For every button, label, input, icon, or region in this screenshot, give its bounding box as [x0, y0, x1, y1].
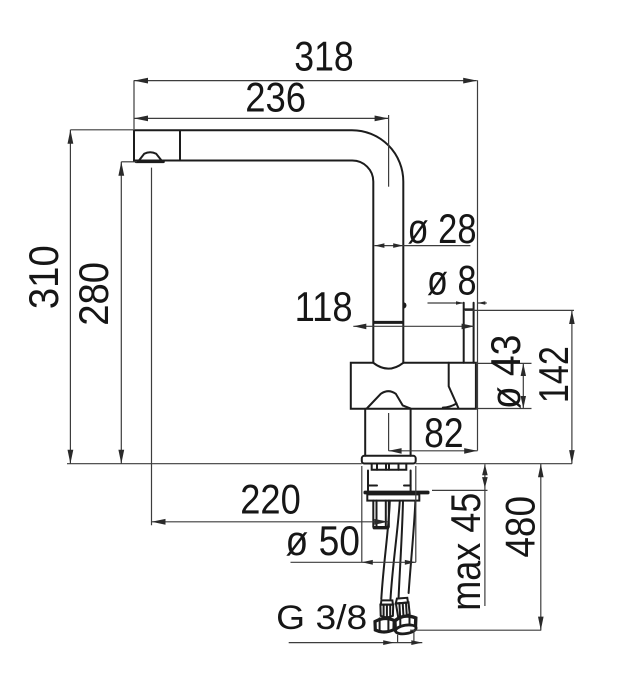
aerator base thick line: [136, 161, 164, 164]
svg-text:G 3/8: G 3/8: [276, 599, 367, 637]
dim 142: [465, 309, 574, 311]
base column: [365, 409, 410, 456]
svg-text:ø 43: ø 43: [482, 335, 529, 410]
svg-text:ø 28: ø 28: [408, 205, 477, 252]
dim o28: [374, 245, 470, 247]
dim 310: [69, 130, 71, 464]
hose B collar: [396, 598, 408, 604]
dim 236: [134, 117, 389, 119]
hose B: [399, 501, 403, 597]
clip bump on tube right: [403, 302, 406, 308]
svg-text:220: 220: [240, 476, 301, 523]
lever tip arc: [443, 404, 457, 408]
dim 280: [120, 162, 122, 464]
dim max45: [432, 489, 488, 491]
spout seam at body neck: [373, 321, 403, 324]
svg-text:236: 236: [245, 73, 306, 120]
lever seam: [449, 363, 459, 409]
hose A ferrule: [380, 605, 393, 618]
svg-text:ø 50: ø 50: [286, 517, 361, 564]
hose A collar: [381, 600, 393, 604]
saddle dip where tube meets body: [373, 363, 403, 369]
mounting nut: [367, 494, 419, 500]
svg-text:310: 310: [20, 245, 67, 309]
threaded stud: [373, 501, 389, 527]
svg-text:280: 280: [70, 262, 117, 326]
spout tip seam: [179, 131, 181, 161]
cone fillet over column: [367, 391, 411, 408]
hose B ferrule: [396, 602, 410, 616]
hose B hex nut: [395, 616, 416, 633]
dim o43: [476, 363, 532, 408]
hose A hex nut: [375, 618, 394, 632]
body cylinder: [351, 363, 476, 409]
lever rod: [464, 303, 474, 363]
escutcheon plate: [362, 456, 416, 464]
gasket blocks under plate: [372, 464, 407, 470]
svg-text:ø 8: ø 8: [427, 257, 477, 304]
dim 480: [410, 629, 541, 631]
svg-text:max 45: max 45: [442, 493, 489, 611]
shank below counter: [368, 471, 411, 491]
washer thick bar: [364, 491, 430, 495]
spout horizontal tube: [134, 130, 403, 362]
svg-text:480: 480: [496, 496, 543, 558]
dim 220: [152, 521, 389, 523]
dim o50: [291, 561, 416, 563]
countertop line: [67, 463, 572, 465]
svg-text:118: 118: [295, 283, 353, 330]
aerator dome: [138, 152, 163, 162]
G3/8 leader: [289, 642, 423, 644]
dim 318: [134, 80, 477, 82]
dim 82: [389, 450, 478, 452]
svg-text:142: 142: [530, 346, 577, 403]
svg-text:82: 82: [424, 409, 464, 456]
hose A: [381, 501, 390, 599]
dim o8: [428, 302, 487, 304]
dim 118: [353, 325, 474, 327]
